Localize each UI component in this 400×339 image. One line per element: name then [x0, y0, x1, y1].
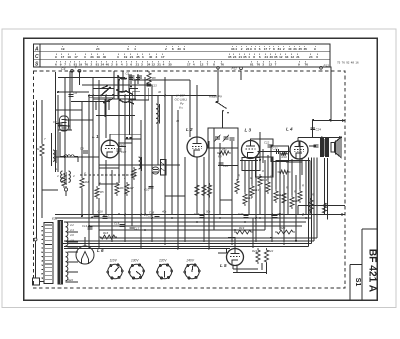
svg-text:L 5: L 5: [220, 263, 227, 268]
svg-text:40: 40: [103, 55, 107, 59]
wire: [219, 143, 221, 214]
svg-text:8: 8: [273, 47, 275, 51]
output transformer and speaker: [321, 137, 342, 158]
wire: [291, 159, 293, 195]
svg-text:92: 92: [346, 61, 350, 65]
capacitor C24: [310, 128, 315, 130]
wire: [267, 155, 269, 180]
junction: [137, 70, 139, 72]
wire: [58, 77, 125, 79]
resistor R15: [274, 189, 278, 203]
wire: [234, 237, 236, 249]
svg-text:33: 33: [285, 55, 289, 59]
capacitor C16: [94, 215, 99, 217]
junction: [88, 95, 90, 97]
svg-text:17: 17: [264, 47, 268, 51]
wire: [196, 85, 198, 137]
junction: [164, 229, 166, 231]
svg-text:C19: C19: [194, 212, 200, 216]
junction: [295, 214, 297, 216]
wire: [275, 160, 277, 189]
wire: [313, 120, 346, 122]
wire: [283, 175, 285, 242]
valve L5: [227, 249, 244, 266]
junction: [264, 221, 266, 223]
wire arrow into chassis edge: [342, 119, 346, 122]
svg-text:C12: C12: [119, 143, 124, 147]
junction: [81, 215, 83, 217]
svg-text:6 c: 6 c: [179, 105, 184, 109]
svg-text:P13: P13: [324, 64, 330, 68]
junction: [91, 217, 93, 219]
wire: [41, 157, 43, 218]
wire: [251, 160, 253, 184]
trimmer capacitor: [215, 135, 221, 142]
capacitor C21: [273, 216, 278, 218]
svg-text:C17: C17: [134, 227, 140, 231]
wire: [64, 248, 230, 250]
svg-text:8: 8: [213, 62, 215, 66]
junction: [88, 225, 90, 227]
wire: [92, 78, 94, 214]
resistor R22: [264, 248, 268, 264]
wire: [327, 158, 329, 220]
wire: [307, 158, 309, 247]
junction: [231, 217, 233, 219]
wire: [118, 80, 120, 183]
wire: [125, 138, 141, 140]
svg-text:21: 21: [296, 55, 300, 59]
svg-text:C6: C6: [74, 91, 78, 95]
svg-text:17: 17: [74, 55, 78, 59]
junction: [271, 214, 273, 216]
svg-text:4.6: 4.6: [70, 233, 74, 237]
svg-text:R16: R16: [103, 231, 109, 235]
svg-text:R: R: [262, 169, 264, 173]
wire: [71, 101, 110, 103]
junction: [105, 95, 107, 97]
wire: [99, 183, 119, 185]
IF transformer can T1: [208, 128, 238, 148]
svg-text:35: 35: [168, 62, 172, 66]
junction: [118, 79, 120, 81]
wire: [98, 80, 100, 186]
wire: [218, 165, 238, 167]
svg-text:24: 24: [101, 62, 105, 66]
resistor R16: [99, 235, 117, 239]
valve L1: [101, 140, 119, 158]
junction: [124, 229, 126, 231]
table row 1 tick numbers: [61, 46, 316, 51]
junction: [203, 214, 205, 216]
capacitor C5: [130, 76, 135, 78]
capacitor C12: [117, 149, 122, 151]
wire: [264, 160, 266, 230]
capacitor C19: [200, 216, 205, 218]
wire: [124, 96, 126, 242]
junction: [312, 119, 314, 121]
resistor: [282, 191, 286, 205]
resistor: [266, 180, 270, 194]
switch P9 lever: [217, 102, 227, 109]
fuse box: [33, 278, 40, 285]
svg-text:12: 12: [151, 62, 155, 66]
svg-text:17: 17: [161, 55, 165, 59]
svg-text:16: 16: [355, 61, 359, 65]
svg-text:24: 24: [246, 47, 250, 51]
wire: [232, 265, 234, 270]
junction: [255, 214, 257, 216]
svg-text:4: 4: [235, 47, 237, 51]
resistor R8: [147, 71, 151, 86]
wire: [208, 141, 210, 248]
junction: [177, 248, 179, 250]
wire: [236, 265, 238, 273]
wire: [271, 157, 273, 242]
svg-text:220V: 220V: [158, 259, 167, 263]
table row 3 tick numbers: [55, 61, 308, 66]
svg-text:P12: P12: [232, 66, 238, 70]
junction: [140, 221, 142, 223]
svg-text:R10: R10: [282, 155, 288, 159]
wire: [226, 249, 228, 254]
wire: [189, 80, 191, 137]
svg-text:C15: C15: [114, 222, 120, 226]
wire: [213, 128, 215, 230]
svg-text:R6: R6: [120, 186, 124, 190]
svg-text:7: 7: [269, 47, 271, 51]
junction: [130, 137, 132, 139]
svg-text:S1: S1: [354, 278, 361, 287]
svg-text:R: R: [250, 176, 252, 180]
wire: [36, 100, 38, 238]
svg-text:4.4: 4.4: [70, 228, 74, 232]
svg-text:4.8: 4.8: [70, 238, 74, 242]
junction: [171, 217, 173, 219]
wire: [203, 157, 205, 242]
wire: [261, 263, 263, 270]
junction: [231, 243, 233, 245]
svg-text:C14: C14: [82, 224, 88, 228]
svg-text:40s: 40s: [162, 210, 167, 214]
resistor R4: [80, 176, 84, 190]
svg-text:19: 19: [61, 47, 65, 51]
wire: [177, 110, 179, 248]
wire: [89, 95, 217, 97]
junction: [126, 137, 128, 139]
wire: [276, 160, 310, 162]
junction: [105, 214, 107, 216]
svg-text:+C16: +C16: [146, 214, 153, 218]
wire: [88, 95, 90, 248]
annotation block: [175, 94, 188, 110]
wire: [157, 96, 159, 165]
knob 110V: [107, 264, 124, 279]
wire: [297, 138, 299, 141]
resistor R10: [280, 152, 289, 156]
wire: [58, 125, 70, 127]
resistor: [132, 167, 136, 180]
svg-text:33: 33: [293, 47, 297, 51]
svg-text:C: C: [108, 214, 110, 218]
svg-text:21: 21: [130, 55, 134, 59]
wire: [252, 218, 254, 248]
svg-text:R1: R1: [36, 147, 40, 151]
svg-text:76: 76: [342, 61, 346, 65]
wire: [309, 145, 316, 147]
svg-text:6: 6: [259, 55, 261, 59]
svg-text:C22: C22: [273, 147, 279, 151]
svg-text:9: 9: [314, 47, 316, 51]
svg-text:24: 24: [309, 55, 313, 59]
junction: [234, 229, 236, 231]
svg-text:40: 40: [106, 62, 110, 66]
svg-text:E22: E22: [52, 217, 58, 221]
svg-text:2: 2: [90, 62, 92, 66]
svg-text:76: 76: [305, 62, 309, 66]
svg-text:3: 3: [262, 62, 264, 66]
svg-text:Radio P9: Radio P9: [209, 95, 222, 99]
transformer tap wire: [68, 241, 79, 243]
wire: [312, 121, 314, 138]
junction: [270, 237, 272, 239]
svg-text:35: 35: [243, 55, 247, 59]
wire: [313, 158, 315, 241]
svg-text:9: 9: [55, 55, 57, 59]
svg-text:4: 4: [134, 47, 136, 51]
junction: [147, 70, 149, 72]
wire: [164, 77, 166, 242]
wire: [105, 160, 107, 214]
valve L2: [187, 137, 207, 157]
svg-text:240V: 240V: [186, 259, 195, 263]
wire: [148, 88, 150, 100]
svg-text:35: 35: [304, 47, 308, 51]
wire: [233, 272, 267, 274]
wire: [237, 135, 239, 180]
svg-text:110V: 110V: [110, 259, 118, 263]
wire: [240, 160, 258, 162]
svg-text:L 1: L 1: [92, 134, 99, 139]
resistor R12: [243, 192, 247, 206]
junction: [259, 217, 261, 219]
wire: [60, 243, 311, 245]
resistor: [322, 201, 326, 215]
junction: [92, 95, 94, 97]
wire: [244, 160, 246, 192]
svg-text:L 6: L 6: [97, 248, 104, 253]
svg-text:C22: C22: [264, 141, 270, 145]
svg-text:3: 3: [117, 55, 119, 59]
svg-text:12: 12: [279, 55, 283, 59]
wire: [55, 156, 99, 158]
earth terminal: [78, 69, 81, 72]
svg-text:3: 3: [127, 47, 129, 51]
wire: [77, 157, 79, 163]
padder trimmer: [56, 116, 69, 131]
svg-text:48: 48: [351, 61, 355, 65]
resistor: [62, 173, 66, 188]
wire: [89, 225, 302, 227]
resistor R6: [115, 182, 119, 196]
junction: [208, 248, 210, 250]
wire: [295, 175, 297, 242]
svg-text:12: 12: [269, 62, 273, 66]
resistor R20: [275, 230, 295, 234]
svg-text:81: 81: [96, 62, 100, 66]
terminal P9 top: [217, 67, 220, 70]
wire: [81, 189, 83, 214]
wire: [218, 252, 227, 254]
svg-text:24: 24: [264, 55, 268, 59]
svg-text:C24: C24: [316, 127, 322, 131]
svg-text:C21: C21: [278, 212, 284, 216]
capacitor C9: [83, 151, 88, 153]
resistor: [235, 179, 239, 194]
wire: [41, 100, 43, 143]
transformer tap wire: [66, 281, 79, 283]
wire: [279, 152, 281, 230]
junction: [98, 221, 100, 223]
svg-text:19: 19: [96, 55, 100, 59]
wire: [286, 161, 302, 163]
capacitor: [137, 76, 142, 78]
svg-text:76: 76: [220, 62, 224, 66]
svg-text:R9: R9: [218, 155, 222, 159]
wire: [79, 71, 81, 85]
wire: [298, 205, 345, 207]
wire: [129, 99, 149, 101]
svg-text:35: 35: [299, 47, 303, 51]
svg-text:1: 1: [69, 62, 71, 66]
shield corner: [129, 89, 131, 136]
wire: [99, 167, 119, 169]
capacitor C17: [130, 226, 135, 228]
junction: [208, 229, 210, 231]
svg-text:50s: 50s: [206, 210, 211, 214]
mains transformer core: [58, 221, 63, 285]
outer frame: [24, 38, 378, 300]
knob 240V: [184, 264, 201, 279]
svg-text:C4: C4: [61, 67, 66, 71]
wire: [99, 229, 265, 231]
svg-text:R: R: [238, 174, 240, 178]
junction: [118, 213, 120, 215]
wire: [248, 161, 250, 214]
svg-text:4: 4: [121, 62, 123, 66]
wire: [305, 160, 307, 214]
junction: [244, 221, 246, 223]
resistor R13: [250, 184, 254, 198]
svg-text:2: 2: [126, 62, 128, 66]
wire: [95, 102, 97, 111]
svg-text:40: 40: [288, 47, 292, 51]
junction: [124, 95, 126, 97]
wire: [108, 102, 110, 111]
wire: [118, 142, 132, 144]
valve L4: [290, 141, 308, 159]
svg-text:8: 8: [172, 47, 174, 51]
oscillator grid coil: [156, 104, 158, 123]
svg-text:C13: C13: [152, 84, 158, 88]
svg-text:19: 19: [124, 55, 128, 59]
svg-text:L 2: L 2: [186, 127, 193, 132]
svg-text:8: 8: [253, 55, 255, 59]
svg-text:9: 9: [250, 47, 252, 51]
table row 2 tick numbers: [55, 53, 318, 58]
svg-text:33: 33: [231, 47, 235, 51]
wire: [151, 85, 153, 242]
capacitor C18: [155, 215, 160, 217]
svg-text:9: 9: [60, 62, 62, 66]
svg-text:4: 4: [193, 62, 195, 66]
wire: [100, 237, 317, 239]
svg-text:40: 40: [270, 55, 274, 59]
wire: [330, 67, 332, 121]
junction: [196, 221, 198, 223]
capacitor C8: [58, 123, 63, 125]
wire: [40, 281, 45, 283]
waveband switch S cluster: [93, 71, 140, 117]
transformer tap wire: [68, 231, 79, 233]
svg-text:33: 33: [177, 47, 181, 51]
coupling box: [161, 160, 167, 176]
antenna terminal: [71, 69, 74, 72]
wire: [110, 134, 141, 140]
title block frame: [350, 229, 377, 300]
wire: [55, 214, 344, 216]
svg-text:R19: R19: [239, 226, 245, 230]
wire: [89, 97, 114, 99]
resistor R18: [290, 195, 294, 209]
svg-text:9: 9: [298, 62, 300, 66]
junction: [259, 159, 261, 161]
capacitor C6: [69, 95, 74, 97]
wire: [118, 146, 126, 148]
svg-text:C10: C10: [144, 188, 150, 192]
capacitor C13: [146, 84, 151, 86]
svg-text:R4: R4: [85, 180, 89, 184]
svg-text:R21: R21: [252, 249, 258, 253]
junction: [283, 243, 285, 245]
wire: [131, 100, 133, 226]
junction: [57, 91, 59, 93]
svg-text:6: 6: [55, 62, 57, 66]
valve L6: [76, 246, 94, 264]
wire: [64, 245, 308, 247]
svg-text:2: 2: [111, 62, 113, 66]
wire: [65, 119, 93, 121]
junction: [203, 214, 205, 216]
wire: [59, 132, 61, 157]
junction: [140, 214, 142, 216]
wire: [93, 88, 114, 90]
resistor: [309, 198, 313, 213]
wire: [98, 198, 100, 248]
wire: [220, 199, 232, 201]
trimmer capacitor: [223, 135, 229, 142]
wire: [64, 240, 314, 242]
svg-text:R: R: [286, 186, 288, 190]
coil former: [152, 167, 159, 174]
knob 220V: [156, 264, 173, 279]
svg-text:C: C: [35, 54, 39, 60]
wire: [324, 158, 326, 214]
junction: [302, 214, 304, 216]
valve L3: [242, 141, 260, 159]
svg-text:2: 2: [165, 47, 167, 51]
wire: [309, 161, 311, 215]
